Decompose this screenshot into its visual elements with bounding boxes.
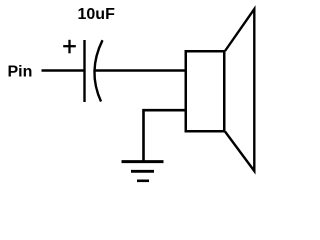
svg-text:Pin: Pin — [8, 64, 33, 81]
speaker LS1 cone — [225, 9, 254, 171]
wire from Pin to capacitor — [42, 69, 85, 72]
ground symbol — [122, 162, 164, 181]
speaker LS1 body rectangle — [186, 51, 225, 131]
wire from capacitor to speaker top terminal — [94, 69, 185, 72]
capacitor C1 positive straight plate — [83, 40, 85, 102]
capacitor C1 polarity plus sign — [63, 40, 76, 54]
wire from speaker bottom terminal to ground — [144, 110, 186, 161]
capacitor C1 negative curved plate — [94, 40, 102, 101]
svg-text:10uF: 10uF — [78, 6, 116, 23]
